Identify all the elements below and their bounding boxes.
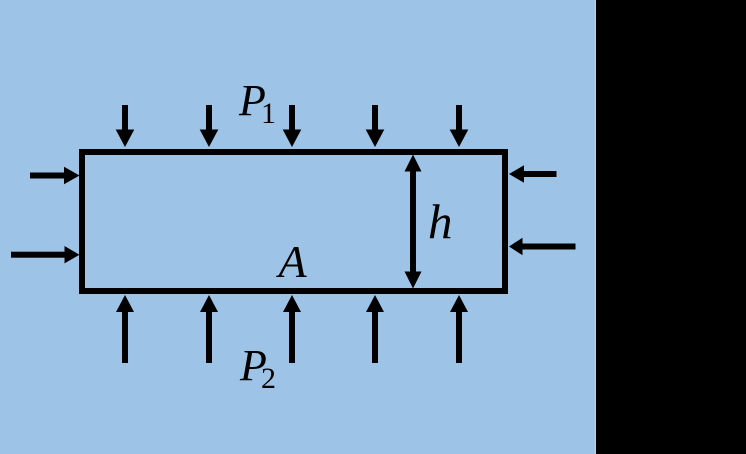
svg-text:1: 1 (261, 97, 276, 130)
svg-text:2: 2 (261, 362, 276, 395)
svg-text:h: h (428, 194, 453, 249)
svg-text:A: A (276, 236, 308, 287)
